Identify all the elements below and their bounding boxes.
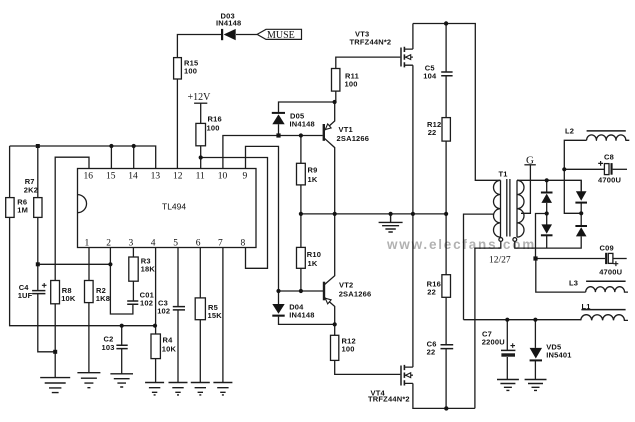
transformer T1 secondary backbone [516, 180, 518, 237]
svg-text:6: 6 [196, 239, 201, 249]
wire bottom rail up to primary bottom [475, 248, 497, 408]
svg-text:22: 22 [428, 128, 437, 137]
capacitor C09 plus [614, 261, 619, 266]
svg-text:7: 7 [218, 239, 223, 249]
wire pin 5 to C3 [177, 248, 179, 307]
svg-text:100: 100 [207, 124, 220, 133]
capacitor C6 plates [441, 345, 454, 349]
svg-text:L2: L2 [565, 127, 574, 136]
resistor R16 (22) [442, 275, 451, 298]
mosfet VT3 arrow [406, 55, 411, 60]
svg-text:TL494: TL494 [162, 202, 186, 212]
wire R9 bottom to gnd rail [300, 185, 302, 214]
svg-text:22: 22 [427, 348, 436, 357]
ground below pin 7 [213, 383, 232, 395]
wire C09 node line left [536, 258, 606, 260]
junction dot gnd rail ground symbol [389, 212, 393, 216]
inductor L1 coil [581, 315, 628, 321]
resistor R4 [151, 334, 160, 359]
svg-text:1K: 1K [308, 259, 318, 268]
ground rail [301, 213, 446, 215]
junction dot R10 bottom [299, 289, 303, 293]
bridge diode bottom-left triangle (points down) [541, 224, 552, 233]
wire +12V to R16 top [200, 103, 202, 123]
wire pin 10 to VT1 base [223, 136, 323, 169]
svg-text:103: 103 [102, 343, 115, 352]
junction dot +12V rail C7 [505, 318, 509, 322]
diode D04 cathode bar [272, 315, 284, 317]
svg-text:1K: 1K [308, 175, 318, 184]
mosfet VT3 channel segments [403, 47, 405, 68]
svg-text:10: 10 [218, 172, 228, 182]
wire pin 1 to R2 [88, 248, 90, 281]
ground below C3 [169, 383, 188, 395]
wire R3 bottom to C01 top [132, 281, 134, 300]
svg-text:C09: C09 [600, 244, 614, 253]
IC notch [78, 195, 87, 213]
wire D05 cathode to R11 bottom node [279, 102, 335, 113]
junction dot R9 top [299, 133, 303, 137]
capacitor C7 bottom plate [501, 353, 515, 356]
wire C5 column top [445, 24, 447, 72]
svg-text:10K: 10K [61, 294, 76, 303]
svg-text:1: 1 [85, 239, 90, 249]
bridge diode top-right cathode bar [575, 202, 587, 204]
wire bridge top-left diode stub [546, 180, 548, 191]
top rail to transformer primary top [413, 24, 501, 181]
+12V rail to L1 [464, 319, 581, 321]
svg-text:13: 13 [151, 172, 161, 182]
diode VD5 triangle [530, 348, 542, 359]
bridge diode top-right triangle (points down) [576, 191, 587, 200]
ground below R5 [191, 383, 210, 395]
svg-text:2SA1266: 2SA1266 [337, 134, 370, 143]
svg-text:IN4148: IN4148 [216, 19, 241, 28]
capacitor C01 plates [127, 301, 138, 304]
svg-text:G: G [526, 155, 534, 167]
wire D04 anode stub [278, 291, 280, 304]
junction dot C2 on DTC rail [120, 324, 124, 328]
mosfet VT4 gate bar [400, 366, 402, 386]
wire R8 bottom to ground [54, 304, 56, 378]
transformer secondary bottom terminal circle [513, 238, 517, 242]
svg-text:L3: L3 [569, 279, 578, 288]
resistor R8 [51, 281, 60, 304]
wire R4 bottom to ground [155, 359, 157, 383]
svg-text:22: 22 [427, 288, 436, 297]
capacitor C7 top plate [501, 349, 515, 351]
mosfet VT3 stubs [405, 49, 413, 65]
svg-text:R4: R4 [163, 336, 174, 345]
svg-text:R16: R16 [208, 115, 222, 124]
wire VT4 drain up to gnd rail [412, 214, 414, 367]
transistor VT1 emitter lead [324, 102, 334, 130]
wire R11 bottom stub [335, 91, 337, 102]
wire pin 6 to R5 [199, 248, 201, 298]
junction dot VT2 emitter / D04 [333, 322, 337, 326]
svg-text:5: 5 [173, 239, 178, 249]
resistor R12 (100) [331, 335, 339, 360]
resistor R3 [129, 257, 138, 281]
wire C7 top stub [506, 320, 508, 350]
svg-text:100: 100 [345, 80, 358, 89]
resistor R12 (22) [442, 118, 450, 142]
junction square C4 to R8 [53, 350, 57, 354]
svg-text:3: 3 [129, 239, 134, 249]
mosfet VT3 gate bar [400, 48, 402, 67]
wire C09 node down to L3 [536, 259, 586, 293]
wire pin 4 to R4 top [155, 248, 157, 335]
svg-text:1K8: 1K8 [96, 294, 110, 303]
junction dot D05 node [276, 133, 280, 137]
svg-text:2SA1266: 2SA1266 [339, 290, 372, 299]
wire R12 bottom to VT4 gate [335, 360, 401, 374]
diode D03 cathode bar [221, 29, 223, 40]
capacitor C09 solid plate [605, 253, 607, 264]
svg-text:16: 16 [84, 172, 94, 182]
junction dot bridge left mid node [545, 211, 549, 215]
svg-text:18K: 18K [141, 265, 156, 274]
svg-text:100: 100 [184, 67, 197, 76]
svg-text:+12V: +12V [188, 92, 212, 103]
mosfet VT4 arrow [406, 373, 411, 378]
wire secondary top lead / bridge top rail [517, 180, 581, 191]
svg-text:MUSE: MUSE [267, 30, 295, 41]
svg-text:14: 14 [128, 172, 138, 182]
junction dot R11 bottom [333, 100, 337, 104]
wire VD5 top stub [534, 320, 536, 348]
svg-text:IN4148: IN4148 [290, 120, 315, 129]
wire top-left diode anode to left mid node [546, 203, 548, 214]
wire D05 anode stub [278, 124, 280, 135]
wire R16 top from gnd rail [445, 214, 447, 275]
svg-text:4: 4 [151, 239, 156, 249]
transistor VT2 base bar [323, 282, 325, 301]
junction dot gnd rail VT collectors [333, 212, 337, 216]
svg-text:8: 8 [241, 239, 246, 249]
wire left mid node down to C09 junction [536, 214, 547, 259]
junction dot pin 15 [109, 144, 113, 148]
junction square C09/L3 node [533, 256, 537, 260]
IC U1 TL494 body [78, 169, 257, 248]
wire C7 bottom to ground [506, 357, 508, 379]
wire VT2 base line [279, 290, 325, 292]
wire D04 cathode to VT2 emitter node [279, 317, 335, 325]
wire pin 14 stub [133, 146, 135, 169]
bridge diode bottom-left cathode bar [541, 234, 553, 236]
svg-text:15K: 15K [208, 311, 223, 320]
junction dot bridge top rail [545, 178, 549, 182]
resistor R15 [174, 58, 182, 79]
wire VT4 source to bottom rail [413, 383, 475, 408]
mosfet VT4 channel segments [403, 365, 405, 386]
inductor L2 core line [587, 130, 626, 132]
svg-text:VT1: VT1 [339, 125, 353, 134]
wire VT3 drain to top rail [412, 24, 414, 50]
svg-text:2K2: 2K2 [24, 186, 38, 195]
ground below C2 [110, 374, 133, 387]
svg-text:TRFZ44N*2: TRFZ44N*2 [368, 395, 410, 404]
junction dot +12V rail VD5 [533, 318, 537, 322]
wire G to secondary centre tap [521, 165, 530, 214]
junction dot D04 node [276, 289, 280, 293]
svg-text:R10: R10 [307, 250, 321, 259]
resistor R5 [195, 298, 205, 320]
wire R11 top and VT3 gate line [336, 57, 401, 68]
svg-text:2200U: 2200U [482, 338, 505, 347]
svg-text:4700U: 4700U [599, 268, 622, 277]
wire C4 top [37, 264, 39, 290]
wire L2 left lead [564, 140, 586, 169]
wire right mid node to C8/L2 node [564, 169, 581, 213]
junction dot gnd rail mosfet column [411, 212, 415, 216]
capacitor C8 hollow plate [604, 164, 609, 175]
wire Vref rail to pin 13 [10, 146, 156, 169]
wire R15 bottom to pin 12 [176, 79, 178, 169]
svg-text:1M: 1M [17, 206, 28, 215]
junction dot pin 14 [132, 144, 136, 148]
wire pin 2 to C01 bottom [110, 264, 132, 314]
mosfet VT4 stubs [405, 367, 413, 383]
capacitor C4 plus [42, 283, 47, 288]
bridge diode top-left cathode bar [541, 192, 553, 194]
junction dot pin 2 [108, 262, 112, 266]
wire bottom-left diode top stub [546, 214, 548, 225]
transformer T1 core lines [507, 179, 510, 237]
svg-text:VT2: VT2 [339, 281, 353, 290]
wire bottom-left diode to bottom rail [546, 236, 548, 248]
wire top-right diode anode stub [580, 180, 582, 191]
svg-text:9: 9 [243, 172, 248, 182]
wire R16 bottom to pin 11 [200, 146, 202, 169]
svg-text:12: 12 [173, 172, 183, 182]
svg-text:1UF: 1UF [18, 291, 33, 300]
resistor R7 [34, 198, 42, 218]
inductor L2 coil [587, 135, 630, 140]
wire pin11 node loop to pin 8 [201, 158, 268, 269]
ground below R4 [145, 383, 164, 395]
resistor R2 [85, 281, 94, 303]
svg-text:102: 102 [140, 299, 153, 308]
wire C8 node left lead [564, 168, 604, 170]
junction dot C8/L2 node [562, 167, 566, 171]
wire primary centre tap to +12V rail [464, 214, 495, 320]
svg-text:12/27: 12/27 [489, 256, 511, 266]
node G label underline [524, 164, 535, 166]
wire bottom-right diode cathode stub [580, 213, 582, 225]
wire feedback rail pin2 [38, 263, 111, 265]
wire R6 top [9, 146, 11, 198]
wire top-right diode cathode to right mid node [580, 203, 582, 214]
wire MUSE line to R15 top [177, 35, 221, 58]
resistor R9 [297, 163, 306, 185]
diode VD5 cathode bar [530, 359, 542, 361]
inductor L3 coil [586, 287, 628, 292]
wire R16 bottom to C6 [445, 297, 447, 344]
svg-text:T1: T1 [499, 170, 508, 179]
wire R10 bottom to VT2 base node [300, 268, 302, 291]
wire VT3 source down to gnd rail [412, 65, 414, 214]
resistor R6 [6, 198, 14, 218]
wire R12 bottom to gnd rail [445, 141, 447, 214]
transistor VT2 emitter lead [324, 297, 334, 335]
wire C09 right lead [613, 258, 627, 260]
svg-text:11: 11 [196, 172, 205, 182]
+12V supply bar [194, 102, 207, 104]
wire C2 drop from DTC rail [121, 326, 123, 345]
wire D03 anode to MUSE flag [236, 34, 257, 36]
svg-text:4700U: 4700U [598, 176, 621, 185]
wire R6 bottom to DTC rail [10, 217, 155, 325]
junction dot R16 bottom / pin 11 [199, 155, 203, 159]
wire C8 right lead [613, 168, 627, 170]
capacitor C4 plates [32, 291, 45, 294]
capacitor C09 hollow plate [608, 253, 613, 263]
resistor R10 [297, 247, 306, 268]
wire C3 bottom to ground [177, 310, 179, 382]
svg-text:IN5401: IN5401 [546, 351, 571, 360]
svg-text:10K: 10K [162, 345, 177, 354]
junction dot bridge right mid node [579, 211, 583, 215]
svg-text:www.elecfans.com: www.elecfans.com [386, 237, 536, 252]
svg-text:104: 104 [423, 72, 437, 81]
bridge diode bottom-right anode-side bar [575, 225, 587, 227]
transistor VT2 emitter arrow (PNP) [325, 298, 331, 304]
wire VD5 bottom to ground [534, 361, 536, 379]
svg-text:102: 102 [157, 307, 170, 316]
transformer T1 primary backbone [500, 180, 502, 237]
capacitor C7 plus [510, 343, 515, 348]
wire R5 bottom to ground [199, 320, 201, 383]
wire pin 2 stub [109, 248, 111, 265]
transistor VT1 collector lead [324, 138, 334, 214]
bridge diode bottom-right triangle (points up) [576, 227, 587, 236]
capacitor C8 solid plate [611, 163, 613, 175]
wire R7 bottom [37, 217, 39, 264]
junction dot gnd rail snubber column [444, 212, 448, 216]
capacitor C3 plates [173, 307, 185, 310]
transformer primary bottom terminal circle [499, 238, 503, 242]
wire pin 16 jog to R8 [55, 157, 89, 280]
transistor VT2 collector lead [324, 214, 334, 285]
transformer T1 secondary winding arcs [517, 180, 524, 237]
junction dot gnd rail R9 [299, 212, 303, 216]
ground below C7 [497, 380, 519, 391]
diode D03 triangle [224, 29, 236, 40]
svg-text:C8: C8 [604, 153, 614, 162]
ground below VD5 [525, 380, 547, 391]
inductor L3 core line [586, 280, 626, 282]
svg-text:L1: L1 [582, 302, 591, 311]
svg-text:15: 15 [106, 172, 116, 182]
svg-text:100: 100 [342, 345, 355, 354]
junction dot top rail C5 [444, 21, 448, 25]
diode D05 triangle [272, 114, 284, 124]
svg-text:IN4148: IN4148 [289, 311, 314, 320]
MUSE signal flag [257, 29, 301, 39]
transistor VT1 base bar [323, 124, 325, 141]
wire R9 top stub [300, 136, 302, 164]
wire pin 7 to ground [222, 248, 224, 383]
wire C6 bottom to bottom rail [445, 349, 447, 408]
transistor VT1 emitter arrow (PNP) [325, 124, 331, 130]
junction dot R4 on DTC rail [153, 324, 157, 328]
svg-text:TRFZ44N*2: TRFZ44N*2 [350, 38, 392, 47]
wire primary bottom terminal stub [497, 242, 501, 249]
junction dot R7 top [36, 144, 40, 148]
capacitor C8 plus [598, 161, 603, 166]
bridge diode top-left triangle (points up) [541, 194, 552, 203]
svg-text:R9: R9 [308, 166, 318, 175]
svg-text:2: 2 [106, 239, 111, 249]
inductor L1 core line [581, 309, 625, 311]
wire pin 9 to VT2 base node [246, 146, 279, 291]
ground below R2 [77, 373, 100, 388]
diode D05 cathode bar [272, 112, 285, 114]
resistor R16 (100) [196, 123, 206, 145]
power ground on gnd rail [379, 214, 403, 232]
wire R10 top from gnd rail [300, 214, 302, 248]
capacitor C5 plates [441, 72, 452, 76]
wire C4 bottom to R8 column [38, 294, 55, 352]
junction dot R7 bottom feedback rail [36, 262, 40, 266]
wire C5 to R12 [445, 76, 447, 117]
wire pin 15 stub [110, 146, 112, 169]
junction dot bottom rail C6 [444, 406, 448, 410]
wire secondary bottom terminal to bridge bottom rail [515, 236, 581, 248]
wire R2 bottom to ground [88, 303, 90, 373]
ground below R8 [40, 378, 70, 393]
wire R7 top [37, 146, 39, 198]
resistor R11 [332, 69, 340, 92]
diode D04 triangle [272, 304, 284, 314]
capacitor C2 plates [116, 345, 127, 348]
wire pin 3 to R3 [132, 248, 134, 258]
wire C2 bottom to ground [121, 349, 123, 374]
transformer T1 primary winding arcs [494, 180, 501, 237]
